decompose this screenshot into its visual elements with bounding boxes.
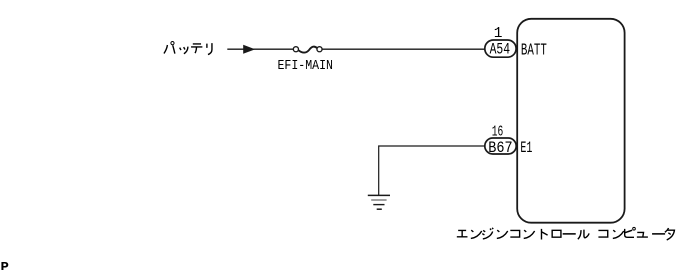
battery label バッテリ (katakana) [164, 42, 212, 55]
svg-text:P: P [1, 260, 9, 270]
svg-text:EFI-MAIN: EFI-MAIN [278, 58, 334, 74]
svg-text:E1: E1 [520, 139, 532, 157]
wire from connector B67 to ground (horizontal + vertical) [379, 146, 485, 195]
connector A54 [485, 40, 516, 59]
fuse EFI-MAIN [293, 47, 322, 53]
svg-text:A54: A54 [490, 41, 510, 59]
ECU box [517, 19, 624, 223]
wire from fuse to connector A54 [322, 48, 484, 50]
arrow (power feed direction) [243, 45, 255, 54]
connector B67 [485, 138, 516, 157]
ECU name label エンジンコントロール コンピュータ (katakana) [457, 227, 675, 240]
svg-text:B67: B67 [488, 139, 512, 157]
svg-text:BATT: BATT [521, 40, 547, 59]
wire from battery to fuse [227, 48, 293, 50]
ground [368, 195, 390, 209]
